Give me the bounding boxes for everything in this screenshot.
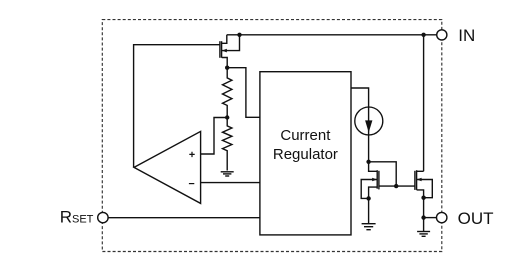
node: gate line junction [394,184,398,188]
resistor R2 [223,118,232,171]
ground under R2 [221,172,234,176]
transistor M2 (mirror left) [361,162,379,199]
svg-text:OUT: OUT [458,209,494,228]
IC boundary dashed box [102,20,442,252]
block: Current Regulator [260,72,351,235]
ground under M3 [417,232,430,237]
pin RSET [60,208,108,227]
wire: op-amp output feedback to M1 gate [134,45,220,168]
wire: OUT junction to OUT pin [424,217,437,219]
node: M2 drain / current source [366,160,370,164]
node: OUT junction [421,215,425,219]
node: R1/R2 divider junction [225,115,229,119]
svg-text:IN: IN [458,26,475,45]
node: M3 body/source junction [421,196,425,200]
pin IN [437,26,476,45]
wire: shared gate line [379,185,415,187]
wire: op-amp - input to block [201,182,260,184]
node: rail junction at M1 source/body [237,33,241,37]
wire: M2 drain-gate tie [369,162,397,186]
node: rail junction to M3 drain [421,33,425,37]
wire: block to current source I1 [351,88,369,162]
resistor R1 [223,68,232,118]
node: M2 source junction [366,196,370,200]
wire: top IN rail [227,34,437,36]
node: M1 drain / R1 top [225,66,229,70]
ground under M2 [362,224,376,230]
wire: M1 drain to Current Regulator block [227,68,260,118]
transistor M1 (pass FET, top) [220,35,240,68]
wire: IN rail down to M3 drain [423,35,425,172]
op-amp U1 [134,131,201,203]
wire: M2 source to ground [368,198,370,223]
pin OUT [437,209,494,228]
wire: RSET to block [108,217,260,219]
current source I1 [355,107,383,135]
svg-text:Regulator: Regulator [273,146,338,163]
transistor M3 (mirror right, output) [415,170,432,231]
wire: divider junction to op-amp + input [201,118,228,155]
svg-text:R: R [60,208,72,227]
svg-text:Current: Current [280,127,331,144]
svg-text:SET: SET [72,214,94,226]
